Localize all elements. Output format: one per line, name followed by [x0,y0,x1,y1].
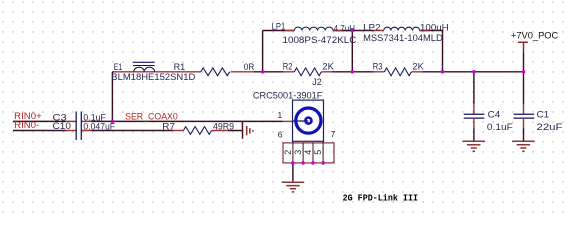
svg-text:4: 4 [303,150,313,155]
svg-text:E1: E1 [114,62,123,72]
svg-text:LP2: LP2 [363,23,381,33]
svg-text:5: 5 [313,150,323,155]
svg-text:LP1: LP1 [272,22,286,32]
junction node R2/R3/LP mid [351,70,355,74]
ferrite bead E1 symbol [133,62,155,72]
svg-text:+7V0_POC: +7V0_POC [511,31,559,41]
ground below J2 [282,182,305,192]
wire RIN0- row [13,130,243,132]
svg-text:22uF: 22uF [537,122,564,132]
connector J2 coax circle [293,108,322,133]
svg-text:R3: R3 [373,62,383,72]
wire vertical drop to coax row [111,72,113,122]
svg-text:0.047uF: 0.047uF [83,122,115,132]
ground below C4 [463,141,486,151]
svg-text:C10: C10 [53,121,71,131]
junction node C4 tap [472,70,476,74]
svg-text:RIN0-: RIN0- [14,120,39,130]
svg-text:6: 6 [278,129,283,139]
connector J2 body box [293,100,324,141]
wire RIN0+ row [13,120,283,122]
svg-text:CRC5001-3901F: CRC5001-3901F [253,91,323,101]
capacitor C4 [464,72,485,142]
inductor LP2 arcs [384,27,420,30]
svg-text:0R: 0R [244,62,255,72]
wire shield drop to ground [292,163,294,182]
resistor R3 zigzag [384,68,411,76]
junction pins 2-5 [291,161,295,165]
svg-text:2G FPD-Link III: 2G FPD-Link III [343,192,418,203]
capacitor C3/C10 shared plates [76,112,81,141]
junction node top LP1/LP2 [351,29,355,33]
connector J2 pin header box [283,143,334,163]
junction node coax tap [111,120,115,124]
ground below C1 [512,141,535,151]
svg-text:49R9: 49R9 [213,121,234,131]
junction node C1/power [522,70,526,74]
pin stub wires (component pins, brighter red) [114,31,430,72]
svg-text:1008PS-472KLC: 1008PS-472KLC [283,35,357,45]
svg-text:R1: R1 [174,62,186,72]
wire vertical LP2 right drop [442,31,444,72]
connector J2 pin wires 2-5 [293,143,323,163]
svg-text:1: 1 [278,110,283,120]
svg-text:R2: R2 [283,62,293,72]
inductor LP1 arcs [294,27,333,30]
wire vertical LP1/LP2 junction drop [351,31,353,72]
resistor R2 zigzag [294,68,321,76]
svg-text:BLM18HE152SN1D: BLM18HE152SN1D [111,72,196,82]
svg-text:0.1uF: 0.1uF [487,122,513,132]
capacitor C1 [514,72,535,142]
coax terminator sideways ground at R7 [242,121,244,138]
svg-text:C1: C1 [537,110,550,120]
svg-text:J2: J2 [312,77,322,87]
svg-text:MSS7341-104MLD: MSS7341-104MLD [363,33,443,43]
svg-text:R7: R7 [162,121,175,131]
power symbol +7V0_POC [518,42,528,72]
resistor R7 zigzag [183,127,211,135]
resistor R1 zigzag [201,68,230,76]
pin 6/7 stubs between boxes [293,141,323,143]
svg-text:C4: C4 [488,110,501,120]
wire top inductor rail segments [285,30,443,32]
svg-text:2K: 2K [412,62,423,72]
svg-text:2K: 2K [322,62,333,72]
wire main horizontal rail y72 [112,71,523,73]
svg-text:SER_COAX0: SER_COAX0 [125,112,178,122]
junction node R1/R2/LP1 [261,70,265,74]
svg-text:2: 2 [283,150,293,155]
svg-text:7: 7 [331,129,336,139]
svg-text:4.7uH: 4.7uH [334,24,355,34]
svg-text:100uH: 100uH [420,23,449,33]
junction node R3/LP2 right [441,70,445,74]
pin stubs row caps and resistors [66,121,293,130]
wire vertical LP1 left drop [263,31,285,72]
svg-text:3: 3 [293,150,303,155]
